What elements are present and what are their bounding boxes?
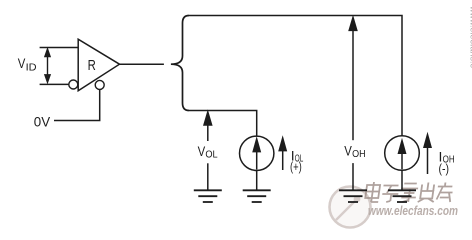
- VOH arrow: [349, 17, 357, 140]
- wire inverting input: [40, 83, 69, 85]
- IOH annotation arrow: [424, 135, 431, 174]
- wire latch to 0V: [54, 89, 100, 120]
- svg-text:OH: OH: [352, 148, 366, 160]
- svg-text:(+): (+): [290, 160, 302, 174]
- brace: [171, 16, 189, 111]
- ground VOL: [194, 190, 222, 202]
- watermark logo circle: [330, 187, 371, 228]
- ground VOH: [339, 190, 367, 202]
- wire bottom rail: [189, 111, 257, 137]
- current source IOH: [385, 136, 420, 171]
- svg-text:(-): (-): [439, 162, 450, 176]
- wire top rail: [189, 16, 402, 137]
- svg-text:ID: ID: [26, 62, 37, 74]
- svg-text:OL: OL: [205, 149, 217, 161]
- wire IOH to ground: [401, 170, 403, 190]
- wire VOL to ground: [207, 163, 209, 190]
- latch pin bubble: [95, 80, 104, 89]
- svg-text:www.elecfans.c: www.elecfans.c: [469, 5, 472, 69]
- wire IOL to ground: [256, 171, 258, 191]
- wire VOH to ground: [352, 163, 354, 190]
- svg-text:www.elecfans.com: www.elecfans.com: [368, 204, 458, 218]
- IOL annotation arrow: [279, 138, 286, 170]
- wire output: [120, 63, 164, 65]
- wire noninverting input: [40, 47, 79, 49]
- ground IOL: [243, 190, 271, 202]
- comparator U1 triangle: [78, 39, 119, 91]
- ground IOH: [388, 190, 416, 202]
- VOL arrow: [204, 112, 212, 141]
- svg-text:0V: 0V: [34, 113, 51, 129]
- svg-text:R: R: [88, 57, 96, 74]
- watermark text 电子发烧友 (stylized strokes): [365, 182, 454, 202]
- current source IOL: [240, 136, 274, 170]
- inverting input bubble: [69, 80, 78, 89]
- VID measurement arrow: [45, 49, 50, 82]
